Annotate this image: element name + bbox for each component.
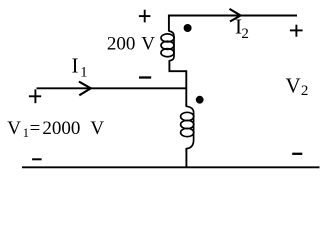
wire: I1 horizontal lead from source	[37, 87, 187, 89]
label: minus (bottom left polarity)	[32, 158, 42, 160]
wire: vertical from jog down to coil L2 (tap lead)	[185, 70, 187, 107]
svg-text:V: V	[141, 34, 155, 55]
wire: vertical below L2 down to bottom rail	[185, 148, 187, 167]
inductor L1 (200 V winding, 3 loops)	[161, 31, 174, 61]
arrowhead for I1	[79, 82, 91, 96]
svg-text:2000: 2000	[42, 118, 80, 139]
label: minus (bottom right polarity)	[292, 153, 302, 155]
wire: vertical below L1 to jog	[168, 60, 170, 71]
label: + (top, L1 polarity)	[139, 10, 151, 23]
svg-text:2: 2	[241, 26, 249, 42]
label: + (right, V2 polarity)	[290, 25, 303, 37]
wire: vertical from top wire corner down to coil L1	[168, 15, 170, 32]
svg-text:2: 2	[301, 83, 309, 99]
wire: bottom rail	[22, 166, 320, 168]
inductor L2 (lower winding, 3 loops)	[181, 106, 194, 148]
arrowhead for I2	[230, 9, 241, 22]
svg-text:200: 200	[107, 34, 135, 55]
svg-text:V: V	[90, 118, 104, 139]
wire: top horizontal (secondary top lead)	[168, 15, 297, 17]
svg-text:V: V	[286, 73, 301, 97]
svg-text:=: =	[30, 118, 41, 139]
polarity dot (L1 top)	[184, 24, 192, 32]
wire: horizontal jog to tap lead	[169, 70, 187, 72]
label: + (left, source polarity)	[29, 89, 41, 103]
label: minus (L1 bottom polarity)	[139, 76, 151, 78]
polarity dot (L2 top)	[196, 96, 204, 104]
svg-text:V: V	[7, 118, 21, 139]
svg-text:I: I	[72, 54, 79, 78]
svg-text:1: 1	[80, 65, 87, 81]
svg-text:1: 1	[23, 126, 29, 140]
